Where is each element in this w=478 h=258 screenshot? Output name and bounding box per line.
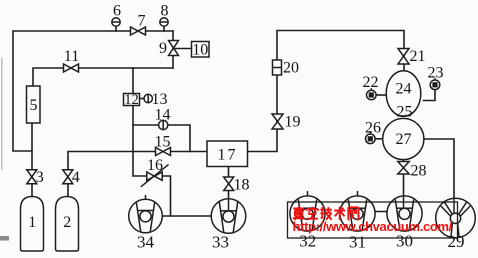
svg-text:31: 31 — [349, 233, 366, 252]
svg-text:33: 33 — [212, 233, 229, 252]
svg-text:27: 27 — [396, 131, 412, 148]
wire gauge13 stub — [140, 98, 145, 100]
wire gauge8 stem — [163, 26, 165, 32]
gauge 14 — [159, 120, 168, 129]
watermark chinese text 真空技术网 (drawn strokes) — [293, 207, 359, 220]
svg-text:11: 11 — [64, 48, 79, 65]
box 20 trap — [273, 60, 282, 75]
box 17 — [207, 141, 248, 167]
svg-text:1: 1 — [28, 214, 36, 231]
wire gauge26 stub — [375, 138, 383, 140]
svg-text:10: 10 — [192, 42, 208, 59]
svg-text:25: 25 — [397, 104, 413, 121]
svg-text:26: 26 — [365, 120, 381, 137]
svg-text:22: 22 — [363, 74, 379, 91]
valve 28 — [398, 162, 409, 175]
wire valve9 to box10 stub — [174, 48, 192, 50]
valve 3 — [27, 170, 37, 184]
chamber 24 — [386, 71, 421, 117]
valve 21 — [398, 49, 409, 65]
gauge 22 element — [369, 92, 374, 97]
valve 7 — [131, 27, 146, 35]
svg-text:5: 5 — [30, 97, 38, 114]
gauge 26 element — [368, 136, 373, 141]
gauge 13 — [144, 94, 152, 102]
svg-text:17: 17 — [218, 147, 238, 164]
pump 31 rotary vane — [340, 191, 375, 231]
svg-text:13: 13 — [152, 91, 168, 108]
wire x133 drop to box12 and valve16 — [133, 68, 171, 216]
wire cylinder2 riser — [68, 152, 207, 198]
wire pump34-pump33 connector — [162, 215, 212, 217]
wire gauge6 stem — [115, 26, 117, 32]
valve 11 — [64, 64, 79, 72]
box 12 — [124, 94, 140, 106]
gauge 6 — [112, 18, 120, 26]
svg-text:34: 34 — [137, 233, 155, 252]
svg-text:23: 23 — [428, 65, 444, 82]
wire gauge22 stub — [376, 94, 387, 96]
svg-text:16: 16 — [147, 157, 163, 174]
svg-text:19: 19 — [285, 114, 301, 131]
wire chamber27 right to pump29 — [424, 139, 454, 214]
box 10 — [192, 42, 210, 58]
wire cylinder1 riser — [31, 123, 33, 197]
gauge 23 element — [432, 82, 437, 87]
svg-text:http://www.chvacuum.com/: http://www.chvacuum.com/ — [293, 219, 453, 234]
valve 19 — [272, 114, 283, 129]
svg-text:18: 18 — [234, 177, 250, 194]
valve 4 — [63, 170, 73, 184]
wire top rail left section — [13, 31, 173, 151]
pump 29 turbomolecular — [436, 198, 476, 238]
svg-text:9: 9 — [159, 40, 167, 57]
svg-text:2: 2 — [63, 214, 71, 231]
wire second rail — [33, 68, 173, 86]
svg-text:12: 12 — [124, 92, 139, 108]
pump 30 rotary vane — [387, 196, 422, 231]
gauge 23 — [430, 80, 440, 90]
wire gauge23 L stem — [424, 90, 436, 101]
svg-text:4: 4 — [72, 169, 80, 186]
pump 32 rotary vane — [290, 191, 325, 231]
gauge 22 — [367, 90, 377, 100]
valve 16 diagonal — [147, 172, 162, 180]
valve 15 — [156, 148, 171, 156]
svg-text:7: 7 — [138, 13, 146, 30]
svg-text:30: 30 — [396, 232, 413, 251]
watermark frame — [288, 202, 458, 238]
wire box17 bottom stem to pump33 — [228, 167, 230, 213]
gas cylinder 1 — [21, 197, 44, 252]
pump 34 rotary vane — [129, 195, 163, 233]
chamber 27 — [383, 118, 424, 159]
svg-text:28: 28 — [411, 163, 427, 180]
pump 33 rotary vane — [211, 199, 246, 234]
box 5 column — [27, 86, 41, 123]
valve 18 — [224, 177, 234, 191]
gas cylinder 2 — [56, 197, 79, 252]
wire valve9 drop — [172, 31, 174, 68]
wire gauge14 bypass — [133, 125, 190, 152]
svg-text:15: 15 — [155, 134, 171, 151]
svg-text:32: 32 — [299, 232, 316, 251]
gauge 8 — [160, 18, 168, 26]
wire valve28 stem to pump30 — [403, 160, 405, 213]
valve 9 — [169, 41, 179, 56]
svg-text:20: 20 — [283, 60, 299, 77]
wire pump31-pump30 connector — [375, 211, 387, 213]
svg-text:21: 21 — [410, 48, 426, 65]
wire box17 right to right leg — [248, 31, 405, 152]
svg-text:8: 8 — [161, 3, 169, 20]
gauge 26 — [366, 134, 376, 144]
svg-text:24: 24 — [396, 81, 412, 98]
svg-text:29: 29 — [448, 232, 465, 251]
svg-text:6: 6 — [113, 3, 121, 20]
svg-text:3: 3 — [36, 169, 44, 186]
svg-text:14: 14 — [155, 107, 171, 124]
